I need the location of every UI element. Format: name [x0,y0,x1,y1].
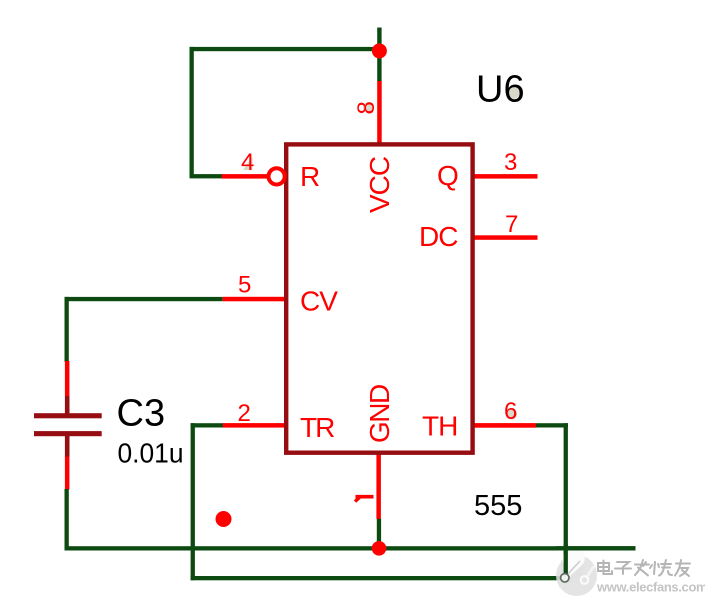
capacitor C3 bottom pin red [65,457,70,490]
capacitor C3 bottom lead maroon [65,436,70,457]
wire pin 4 red stub [222,174,269,179]
svg-text:VCC: VCC [364,156,395,213]
capacitor C3 top plate [34,413,102,418]
capacitor C3 top pin red [65,361,70,397]
svg-text:CV: CV [300,286,338,317]
node open pad left [561,574,569,582]
pin number 4 gray blob [243,157,253,171]
designator U6 gray blob in 6 [506,86,519,99]
IC U6 555 timer body [286,144,472,452]
wire pin 2 green horizontal [191,423,224,427]
wire C3 bottom green vertical [65,489,69,550]
char 电 [598,561,612,575]
svg-text:R: R [300,161,320,192]
pin number 1 [355,497,374,502]
node VCC junction dot [372,43,387,58]
capacitor C3 bottom plate [34,431,102,436]
node open pad right [581,576,589,584]
svg-text:DC: DC [419,221,458,252]
wire pin 6 vertical green [564,423,568,578]
svg-text:8: 8 [353,101,380,114]
svg-text:2: 2 [238,400,251,427]
svg-text:555: 555 [474,490,522,522]
wire GND bottom horizontal A [65,546,636,550]
wire pin 6 green horizontal [536,423,568,427]
char 子 [615,562,631,574]
svg-text:5: 5 [238,272,251,299]
wire VCC green below junction [377,50,381,82]
char 友 [675,560,690,576]
wire VCC stub above junction [377,28,381,52]
watermark logo circle [556,549,597,596]
svg-text:TR: TR [300,412,334,443]
wire pin 6 red stub [470,423,536,428]
svg-text:3: 3 [504,149,517,176]
wire pin 2 red stub [223,423,286,428]
wire pin 2 vertical green [191,423,195,580]
watermark chinese text 电子发烧友 [598,560,690,576]
wire CV net left vertical green [65,297,69,362]
char 烧 [650,560,672,576]
node GND junction dot [372,541,387,556]
wire pin 8 red stub [377,81,382,144]
wire pin 1 green segment [377,519,381,549]
svg-text:TH: TH [422,411,457,442]
wire VCC net left vertical [190,47,194,178]
svg-text:0.01u: 0.01u [118,438,184,469]
wire pin 5 red stub [223,297,286,302]
wire pin-4 horizontal green segment [190,174,223,178]
svg-text:U6: U6 [476,69,525,111]
wire pin 3 red stub [470,174,538,179]
pin number 8 gray blob [363,102,374,113]
char 发 [635,560,649,576]
svg-text:4: 4 [241,149,254,176]
svg-text:www.elecfans.com: www.elecfans.com [596,580,705,595]
svg-text:GND: GND [364,385,395,443]
svg-text:C3: C3 [117,393,166,435]
wire pin 7 red stub [470,235,538,240]
node lone junction dot [216,511,232,527]
wire CV net horizontal green [65,297,223,301]
wire bottom horizontal A over logo [556,546,636,550]
wire pin 1 red stub [376,453,381,519]
svg-text:7: 7 [505,211,518,238]
wire bottom horizontal B [191,576,564,580]
svg-text:6: 6 [504,398,517,425]
capacitor C3 top lead maroon [65,396,70,414]
pin 4 inversion bubble [269,168,285,184]
svg-text:Q: Q [437,160,459,191]
wire VCC net top horizontal [190,47,382,51]
pin number 6 gray blob [506,409,517,420]
wire pin6 vertical over logo [564,544,568,578]
